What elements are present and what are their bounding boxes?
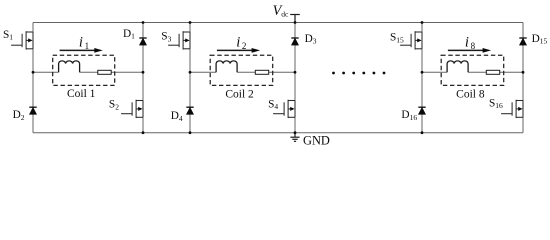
ground symbol <box>290 133 299 142</box>
svg-text:S3: S3 <box>161 31 171 44</box>
svg-text:D1: D1 <box>123 28 135 41</box>
diode D2 <box>29 107 36 114</box>
top rail (Vdc bus) <box>33 22 523 24</box>
transistor S15 <box>400 31 422 49</box>
wire coil 8 right lead <box>468 71 523 73</box>
wire leg8 right vertical (D15/S16 branch) <box>522 23 524 133</box>
svg-text:S2: S2 <box>109 99 119 112</box>
transistor S3 <box>168 31 190 49</box>
wire coil 1 left lead <box>33 71 59 73</box>
wire leg2 left vertical (S3/D4 branch) <box>189 23 191 133</box>
diode D1 <box>139 38 146 45</box>
current arrow i2 <box>217 48 260 53</box>
wire coil 2 right lead <box>237 71 295 73</box>
transistor S16 <box>501 100 523 118</box>
svg-text:i1: i1 <box>79 35 89 51</box>
coil 2 dashed outline box <box>210 55 273 85</box>
svg-text:S4: S4 <box>268 98 278 111</box>
resistor R8 (Coil 8) <box>486 70 499 74</box>
ellipsis dots (continuation between leg 2 and leg 8) <box>332 72 385 75</box>
transistor S4 <box>273 100 295 118</box>
wire coil 2 left lead <box>190 71 216 73</box>
svg-text:D4: D4 <box>171 110 183 123</box>
svg-text:GND: GND <box>303 134 330 148</box>
svg-text:S15: S15 <box>390 32 404 45</box>
diode D4 <box>186 107 193 114</box>
bottom rail (GND bus) <box>33 132 523 134</box>
current arrow i1 <box>60 48 103 53</box>
transistor S1 <box>11 31 33 49</box>
diode D16 <box>418 107 425 114</box>
wire leg1 right vertical (D1/S2 branch) <box>142 23 144 133</box>
wire leg2 right vertical (D3/S4 branch) <box>294 23 296 133</box>
resistor R2 (Coil 2) <box>255 70 268 74</box>
coil 1 dashed outline box <box>53 55 115 85</box>
transistor S2 <box>121 100 143 118</box>
node junction dots at coil connections <box>32 71 525 74</box>
Vdc terminal stub <box>290 15 300 23</box>
svg-text:dc: dc <box>281 9 289 18</box>
coil 8 dashed outline box <box>441 55 504 85</box>
svg-text:i8: i8 <box>465 35 476 51</box>
svg-text:D3: D3 <box>305 33 317 46</box>
svg-text:S16: S16 <box>489 97 503 110</box>
node junction dots on top rail <box>142 21 424 24</box>
diode D3 <box>291 38 298 45</box>
node junction dots on bottom rail <box>142 131 424 134</box>
wire leg1 left vertical (S1/D2 branch) <box>32 23 34 133</box>
svg-text:i2: i2 <box>236 35 246 51</box>
svg-text:Coil 8: Coil 8 <box>456 89 485 101</box>
svg-text:D15: D15 <box>532 33 548 46</box>
wire leg8 left vertical (S15/D16 branch) <box>421 23 423 133</box>
svg-text:D2: D2 <box>13 109 25 122</box>
resistor R1 (Coil 1) <box>98 70 111 74</box>
diode D15 <box>519 38 526 45</box>
inductor L8 (Coil 8) <box>447 61 468 72</box>
inductor L2 (Coil 2) <box>216 61 237 72</box>
svg-text:Coil 2: Coil 2 <box>225 89 254 101</box>
svg-text:D16: D16 <box>401 109 417 122</box>
svg-text:Coil 1: Coil 1 <box>67 88 96 100</box>
svg-text:S1: S1 <box>3 29 13 42</box>
wire coil 8 left lead <box>422 71 447 73</box>
wire coil 1 right lead <box>80 71 143 73</box>
inductor L1 (Coil 1) <box>59 61 80 72</box>
current arrow i8 <box>448 48 491 53</box>
